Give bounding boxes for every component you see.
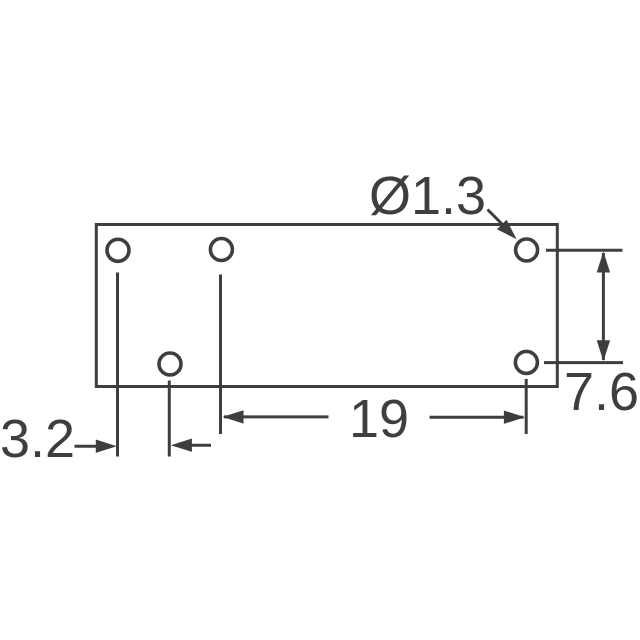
hole H5 bottom-right bbox=[515, 351, 537, 373]
extension line below H4 bbox=[168, 381, 171, 457]
svg-text:7.6: 7.6 bbox=[564, 362, 639, 422]
svg-text:3.2: 3.2 bbox=[0, 409, 75, 469]
hole H2 top-middle bbox=[210, 239, 232, 261]
board outline rectangle bbox=[96, 225, 557, 387]
extension line right of H3 bbox=[546, 249, 623, 252]
vertical dimension line 7.6 bbox=[602, 253, 605, 360]
arrowhead left of 19 dimension bbox=[223, 410, 244, 423]
arrowhead right of 19 dimension bbox=[504, 411, 525, 424]
leader line from Ø1.3 label bbox=[488, 210, 508, 230]
extension line right of H5 bbox=[544, 361, 623, 364]
svg-text:Ø1.3: Ø1.3 bbox=[369, 166, 486, 226]
svg-text:19: 19 bbox=[349, 389, 409, 449]
arrowhead down of 7.6 dimension bbox=[597, 340, 610, 361]
arrowhead right-pointing of 3.2 dimension bbox=[96, 440, 117, 453]
dimension line 19 right segment bbox=[430, 416, 524, 419]
hole H3 top-right bbox=[516, 239, 538, 261]
extension line below H5 bbox=[525, 379, 528, 434]
dimension line 3.2 left segment bbox=[75, 445, 98, 448]
extension line below H1 bbox=[116, 273, 119, 457]
hole H4 bottom-left bbox=[159, 353, 181, 375]
arrowhead left-pointing of 3.2 dimension bbox=[171, 439, 192, 452]
leader arrowhead pointing at hole H3 bbox=[497, 220, 517, 240]
hole H1 top-left bbox=[107, 239, 129, 261]
arrowhead up of 7.6 dimension bbox=[597, 252, 610, 273]
extension line below H2 bbox=[219, 275, 222, 435]
dimension line 19 left segment bbox=[224, 415, 329, 418]
dimension line 3.2 right segment bbox=[190, 444, 211, 447]
